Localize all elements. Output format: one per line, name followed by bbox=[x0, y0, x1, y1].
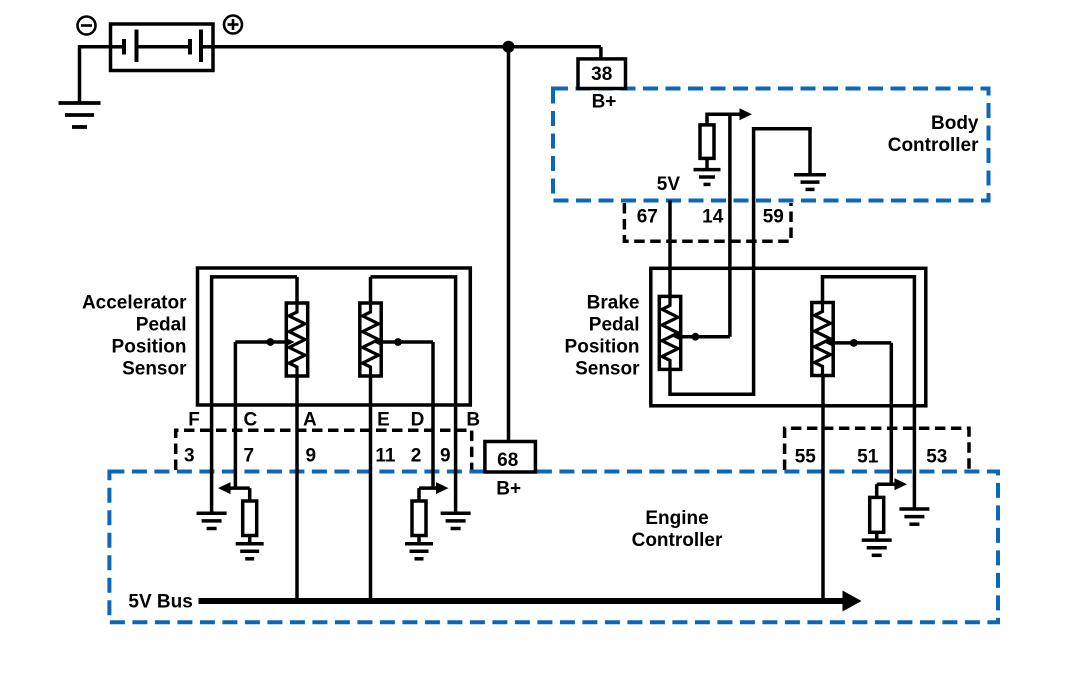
svg-text:38: 38 bbox=[591, 64, 612, 85]
svg-text:B+: B+ bbox=[496, 479, 521, 500]
resistor engine pin 2 bbox=[412, 501, 426, 536]
connector (brake pins 55,51,53) dashed box bbox=[785, 428, 969, 470]
node junction dot bbox=[503, 41, 515, 53]
svg-text:E: E bbox=[377, 410, 390, 431]
wiper accel 1 (pin C) bbox=[235, 338, 294, 488]
ground (body pin 59) bbox=[794, 175, 826, 190]
engine controller box (blue dashed) bbox=[109, 472, 998, 623]
wire node to pin 68 bbox=[507, 47, 511, 442]
svg-text:A: A bbox=[303, 410, 317, 431]
svg-text:D: D bbox=[411, 410, 425, 431]
svg-text:Pedal: Pedal bbox=[589, 315, 640, 336]
body controller box (blue dashed) bbox=[553, 89, 989, 201]
svg-text:C: C bbox=[244, 410, 258, 431]
svg-text:Sensor: Sensor bbox=[575, 359, 640, 380]
svg-text:Controller: Controller bbox=[632, 530, 723, 551]
svg-text:9: 9 bbox=[306, 446, 317, 467]
wire battery positive to node bbox=[213, 45, 601, 49]
wire 5V pin 67 to brake pot1 top bbox=[668, 201, 672, 297]
svg-text:5V: 5V bbox=[657, 174, 681, 195]
wire E: accel pot2 to 5V bus (pin 11) bbox=[369, 376, 373, 601]
accelerator pedal position sensor box bbox=[198, 268, 471, 405]
svg-text:Sensor: Sensor bbox=[122, 359, 187, 380]
signal arrow body pin 14 bbox=[707, 108, 752, 125]
wire brake pot1 low side to pin 59 bbox=[670, 129, 810, 394]
wire F: ground rail left / pin 3 bbox=[212, 277, 297, 513]
svg-text:67: 67 bbox=[637, 207, 658, 228]
svg-text:51: 51 bbox=[857, 447, 879, 468]
5V bus bbox=[199, 591, 862, 612]
svg-text:Controller: Controller bbox=[888, 135, 979, 156]
signal arrow engine pin 2 bbox=[419, 482, 449, 500]
svg-text:3: 3 bbox=[184, 446, 195, 467]
pin 68 box bbox=[485, 442, 536, 473]
resistor engine pin 51 bbox=[870, 497, 884, 532]
connector (body controller pins 67,14,59) dashed box bbox=[624, 203, 791, 241]
svg-text:Pedal: Pedal bbox=[136, 315, 187, 336]
resistor body pin 14 bbox=[700, 125, 714, 158]
ground (engine pin 2) bbox=[405, 544, 433, 559]
wire A: accel pot1 to 5V bus (pin 9) bbox=[295, 376, 299, 601]
svg-text:Position: Position bbox=[565, 337, 640, 358]
resistor engine pin 7 bbox=[243, 501, 257, 536]
svg-text:B+: B+ bbox=[592, 92, 617, 113]
wiper brake 1 (pin 14) bbox=[673, 114, 730, 341]
svg-text:B: B bbox=[466, 410, 480, 431]
ground (body pin 14) bbox=[694, 170, 721, 185]
wiper brake 2 (pin 51) bbox=[825, 339, 891, 485]
wire node down to pin 38 bbox=[599, 47, 603, 59]
svg-text:Engine: Engine bbox=[645, 508, 708, 529]
svg-text:5V Bus: 5V Bus bbox=[128, 592, 192, 613]
wire brake pot2 top rail to pin 53 ground bbox=[823, 277, 915, 509]
potentiometer brake 1 bbox=[659, 296, 680, 369]
svg-text:9: 9 bbox=[440, 446, 451, 467]
ground (engine pin 9b) bbox=[441, 513, 471, 528]
svg-text:14: 14 bbox=[702, 207, 724, 228]
signal arrow engine pin 51 bbox=[877, 478, 907, 497]
wire battery negative to ground bbox=[80, 47, 111, 102]
svg-text:Body: Body bbox=[931, 113, 979, 134]
ground (engine pin 51) bbox=[862, 540, 892, 555]
ground (engine pin 7) bbox=[236, 544, 264, 559]
svg-text:59: 59 bbox=[763, 207, 784, 228]
svg-text:F: F bbox=[188, 410, 200, 431]
svg-text:Position: Position bbox=[112, 337, 187, 358]
svg-text:Accelerator: Accelerator bbox=[82, 293, 187, 314]
ground (engine pin 53) bbox=[899, 509, 929, 524]
svg-text:2: 2 bbox=[411, 446, 422, 467]
svg-text:7: 7 bbox=[244, 446, 255, 467]
wire B: ground rail right / pin 9b bbox=[371, 277, 456, 513]
svg-text:11: 11 bbox=[375, 446, 396, 467]
svg-text:68: 68 bbox=[497, 450, 518, 471]
wiper accel 2 (pin D) bbox=[373, 338, 433, 488]
brake pedal position sensor box bbox=[651, 268, 926, 406]
svg-text:Brake: Brake bbox=[587, 293, 640, 314]
svg-text:53: 53 bbox=[926, 447, 947, 468]
battery plus terminal symbol bbox=[224, 16, 242, 34]
potentiometer accel 1 bbox=[286, 277, 307, 376]
signal arrow engine pin 7 bbox=[218, 482, 250, 500]
battery B1 bbox=[111, 24, 214, 71]
potentiometer brake 2 bbox=[812, 303, 833, 376]
connector (accelerator pins 3,7,9,11,2,9) dashed box bbox=[176, 430, 472, 470]
potentiometer accel 2 bbox=[360, 277, 381, 376]
battery minus terminal symbol bbox=[78, 17, 96, 35]
svg-text:55: 55 bbox=[795, 447, 817, 468]
ground (battery) bbox=[59, 103, 101, 127]
ground (engine pin 3) bbox=[197, 513, 227, 528]
pin 38 box bbox=[578, 59, 626, 89]
wire brake pot2 low side to 5V bus (pin 55) bbox=[821, 375, 825, 601]
